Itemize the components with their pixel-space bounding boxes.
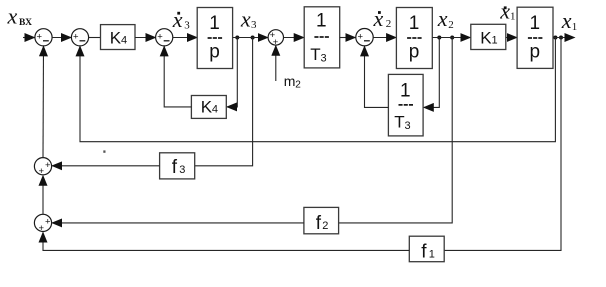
svg-text:2: 2 <box>448 19 454 31</box>
node A junction dot (x3 to K4 feedback) <box>235 36 239 40</box>
svg-text:p: p <box>409 42 420 63</box>
svg-text:K: K <box>480 29 492 48</box>
svg-text:4: 4 <box>121 35 127 47</box>
svg-text:3: 3 <box>405 120 411 132</box>
svg-text:1: 1 <box>316 11 327 32</box>
wire S5 to integrator I2 <box>373 37 396 39</box>
svg-text:+: + <box>157 31 163 42</box>
svg-text:ВХ: ВХ <box>19 18 32 28</box>
svg-text:p: p <box>530 42 541 63</box>
svg-text:2: 2 <box>386 18 392 30</box>
svg-text:+: + <box>45 217 51 228</box>
wire S4 to T3 block <box>284 37 304 39</box>
label x_vx input signal <box>7 3 33 28</box>
wire input arrow into S1 <box>23 37 35 39</box>
block integrator I3 1/p <box>517 7 553 68</box>
svg-text:3: 3 <box>179 164 185 176</box>
svg-text:+: + <box>39 166 45 177</box>
summing junction S3 <box>156 29 173 46</box>
wire m2 input arrow <box>275 46 277 81</box>
wire f1 output left and up to B2 <box>43 233 409 251</box>
svg-text:+: + <box>73 31 79 42</box>
label xdot2 <box>373 6 392 31</box>
wire T3 feedback output to S5 minus input <box>365 46 389 107</box>
block G2 1/T3 feedback <box>388 74 423 135</box>
label x3 <box>240 6 257 31</box>
summing junction S2 <box>71 29 88 46</box>
block K4 gain <box>101 25 136 50</box>
svg-text:x: x <box>240 6 251 31</box>
svg-text:1: 1 <box>400 80 411 101</box>
svg-text:x: x <box>373 6 384 31</box>
wire node F down to f1 input <box>444 38 561 251</box>
svg-text:1: 1 <box>530 13 541 34</box>
wire I1 to S4 <box>233 37 268 39</box>
node D junction dot (x2 to f2) <box>450 36 454 40</box>
svg-text:4: 4 <box>212 103 218 115</box>
wire B2 output up to B1 <box>42 176 44 215</box>
node F junction dot (x1 to f1) <box>559 36 563 40</box>
svg-text:x: x <box>172 7 183 32</box>
wire T3 to S5 <box>340 37 356 39</box>
node C junction dot (x2 to T3 feedback) <box>437 36 441 40</box>
svg-text:x: x <box>7 3 18 28</box>
svg-text:1: 1 <box>429 249 435 261</box>
svg-text:K: K <box>201 97 213 116</box>
block f3 <box>160 153 195 179</box>
wire S3 to integrator I1 <box>173 37 197 39</box>
svg-text:1: 1 <box>409 13 420 34</box>
wire S1 to S2 <box>52 37 71 39</box>
svg-text:+: + <box>39 223 45 234</box>
label xdot3 <box>172 7 191 32</box>
svg-text:f: f <box>316 213 322 234</box>
wire node D down to f2 input <box>339 38 453 223</box>
svg-text:T: T <box>310 45 320 64</box>
svg-text:m: m <box>284 73 296 89</box>
wire node C down and left into T3 feedback block <box>424 38 440 108</box>
svg-text:3: 3 <box>184 19 190 31</box>
block f2 <box>304 207 339 233</box>
summing junction S1 <box>35 29 52 46</box>
svg-text:1: 1 <box>209 13 220 34</box>
wire f2 output to B2 <box>52 222 304 224</box>
svg-text:2: 2 <box>322 220 328 232</box>
node B junction dot (x3 to f3) <box>251 36 255 40</box>
svg-text:2: 2 <box>295 80 301 91</box>
svg-text:3: 3 <box>321 53 327 65</box>
wire S2 to K4 <box>89 37 101 39</box>
summing junction S4 (m2 input) <box>268 30 283 48</box>
summing junction B2 <box>34 214 51 234</box>
summing junction B1 <box>34 158 51 178</box>
svg-text:+: + <box>45 160 51 171</box>
svg-text:+: + <box>358 31 364 42</box>
svg-text:+: + <box>37 31 43 42</box>
block K1 gain <box>471 24 506 49</box>
wire I2 to K1 <box>432 37 470 39</box>
svg-text:f: f <box>421 242 427 263</box>
wire unity feedback from node E to S2 <box>80 38 555 142</box>
svg-text:x: x <box>561 8 572 33</box>
svg-text:T: T <box>394 113 404 132</box>
svg-text:1: 1 <box>492 35 498 47</box>
label m2 <box>284 73 302 91</box>
block G1 1/T3 <box>304 7 340 68</box>
svg-text:1: 1 <box>510 11 516 23</box>
svg-text:1: 1 <box>572 21 578 33</box>
wire f3 output to B1 <box>52 165 159 167</box>
wire K4 to S3 <box>135 37 156 39</box>
block K4 feedback <box>191 96 226 119</box>
label xdot1 <box>499 0 515 23</box>
block integrator I2 1/p <box>396 8 432 69</box>
summing junction S5 <box>356 29 373 46</box>
block integrator I1 1/p <box>197 8 232 69</box>
node E junction dot (x1 to unity feedback) <box>553 36 557 40</box>
wire I3 to output arrow x1 <box>553 37 575 39</box>
label x2 <box>437 6 454 31</box>
block f1 <box>409 236 444 262</box>
svg-text:x: x <box>499 0 510 23</box>
wire K4 feedback output to S3 minus input <box>164 46 191 107</box>
wire B1 output up to S1 <box>42 46 45 157</box>
svg-text:K: K <box>110 29 122 48</box>
svg-text:p: p <box>209 42 220 63</box>
wire node B down to f3 input <box>195 38 253 166</box>
svg-text:3: 3 <box>251 19 257 31</box>
wire K1 to integrator I3 <box>506 37 517 39</box>
svg-text:x: x <box>437 6 448 31</box>
stray mark dot <box>103 150 105 152</box>
wire node A down and left into K4 feedback block <box>227 38 237 107</box>
label x1 output <box>561 8 578 33</box>
svg-text:f: f <box>172 157 178 178</box>
